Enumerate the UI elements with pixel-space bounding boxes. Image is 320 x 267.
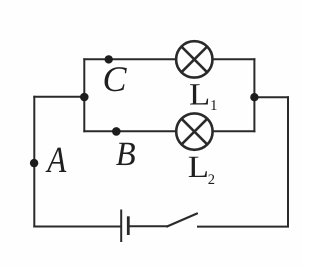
svg-text:B: B	[116, 136, 136, 173]
svg-text:C: C	[103, 59, 128, 99]
svg-text:A: A	[45, 140, 67, 181]
svg-text:L: L	[188, 149, 209, 184]
svg-text:L: L	[189, 77, 210, 112]
svg-text:1: 1	[210, 98, 218, 114]
svg-text:2: 2	[208, 172, 215, 188]
